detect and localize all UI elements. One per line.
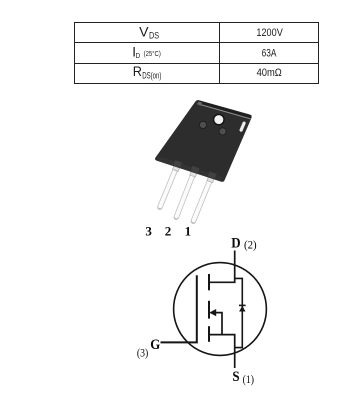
svg-text:3: 3 (145, 223, 152, 238)
svg-text:G: G (150, 337, 160, 353)
svg-text:(2): (2) (244, 238, 257, 251)
svg-text:1: 1 (185, 223, 192, 238)
svg-text:(25°C): (25°C) (144, 49, 162, 58)
svg-text:V: V (139, 24, 148, 39)
svg-text:R: R (133, 64, 142, 79)
svg-text:D: D (136, 51, 141, 60)
svg-text:63A: 63A (262, 47, 277, 59)
svg-text:(3): (3) (137, 347, 149, 360)
svg-text:S: S (232, 369, 239, 385)
svg-text:DS: DS (149, 31, 159, 41)
svg-text:40mΩ: 40mΩ (257, 67, 283, 79)
svg-text:D: D (231, 236, 240, 252)
svg-text:(1): (1) (243, 373, 255, 386)
svg-text:DS(on): DS(on) (142, 70, 161, 80)
svg-text:2: 2 (165, 223, 172, 238)
svg-text:1200V: 1200V (256, 27, 283, 39)
